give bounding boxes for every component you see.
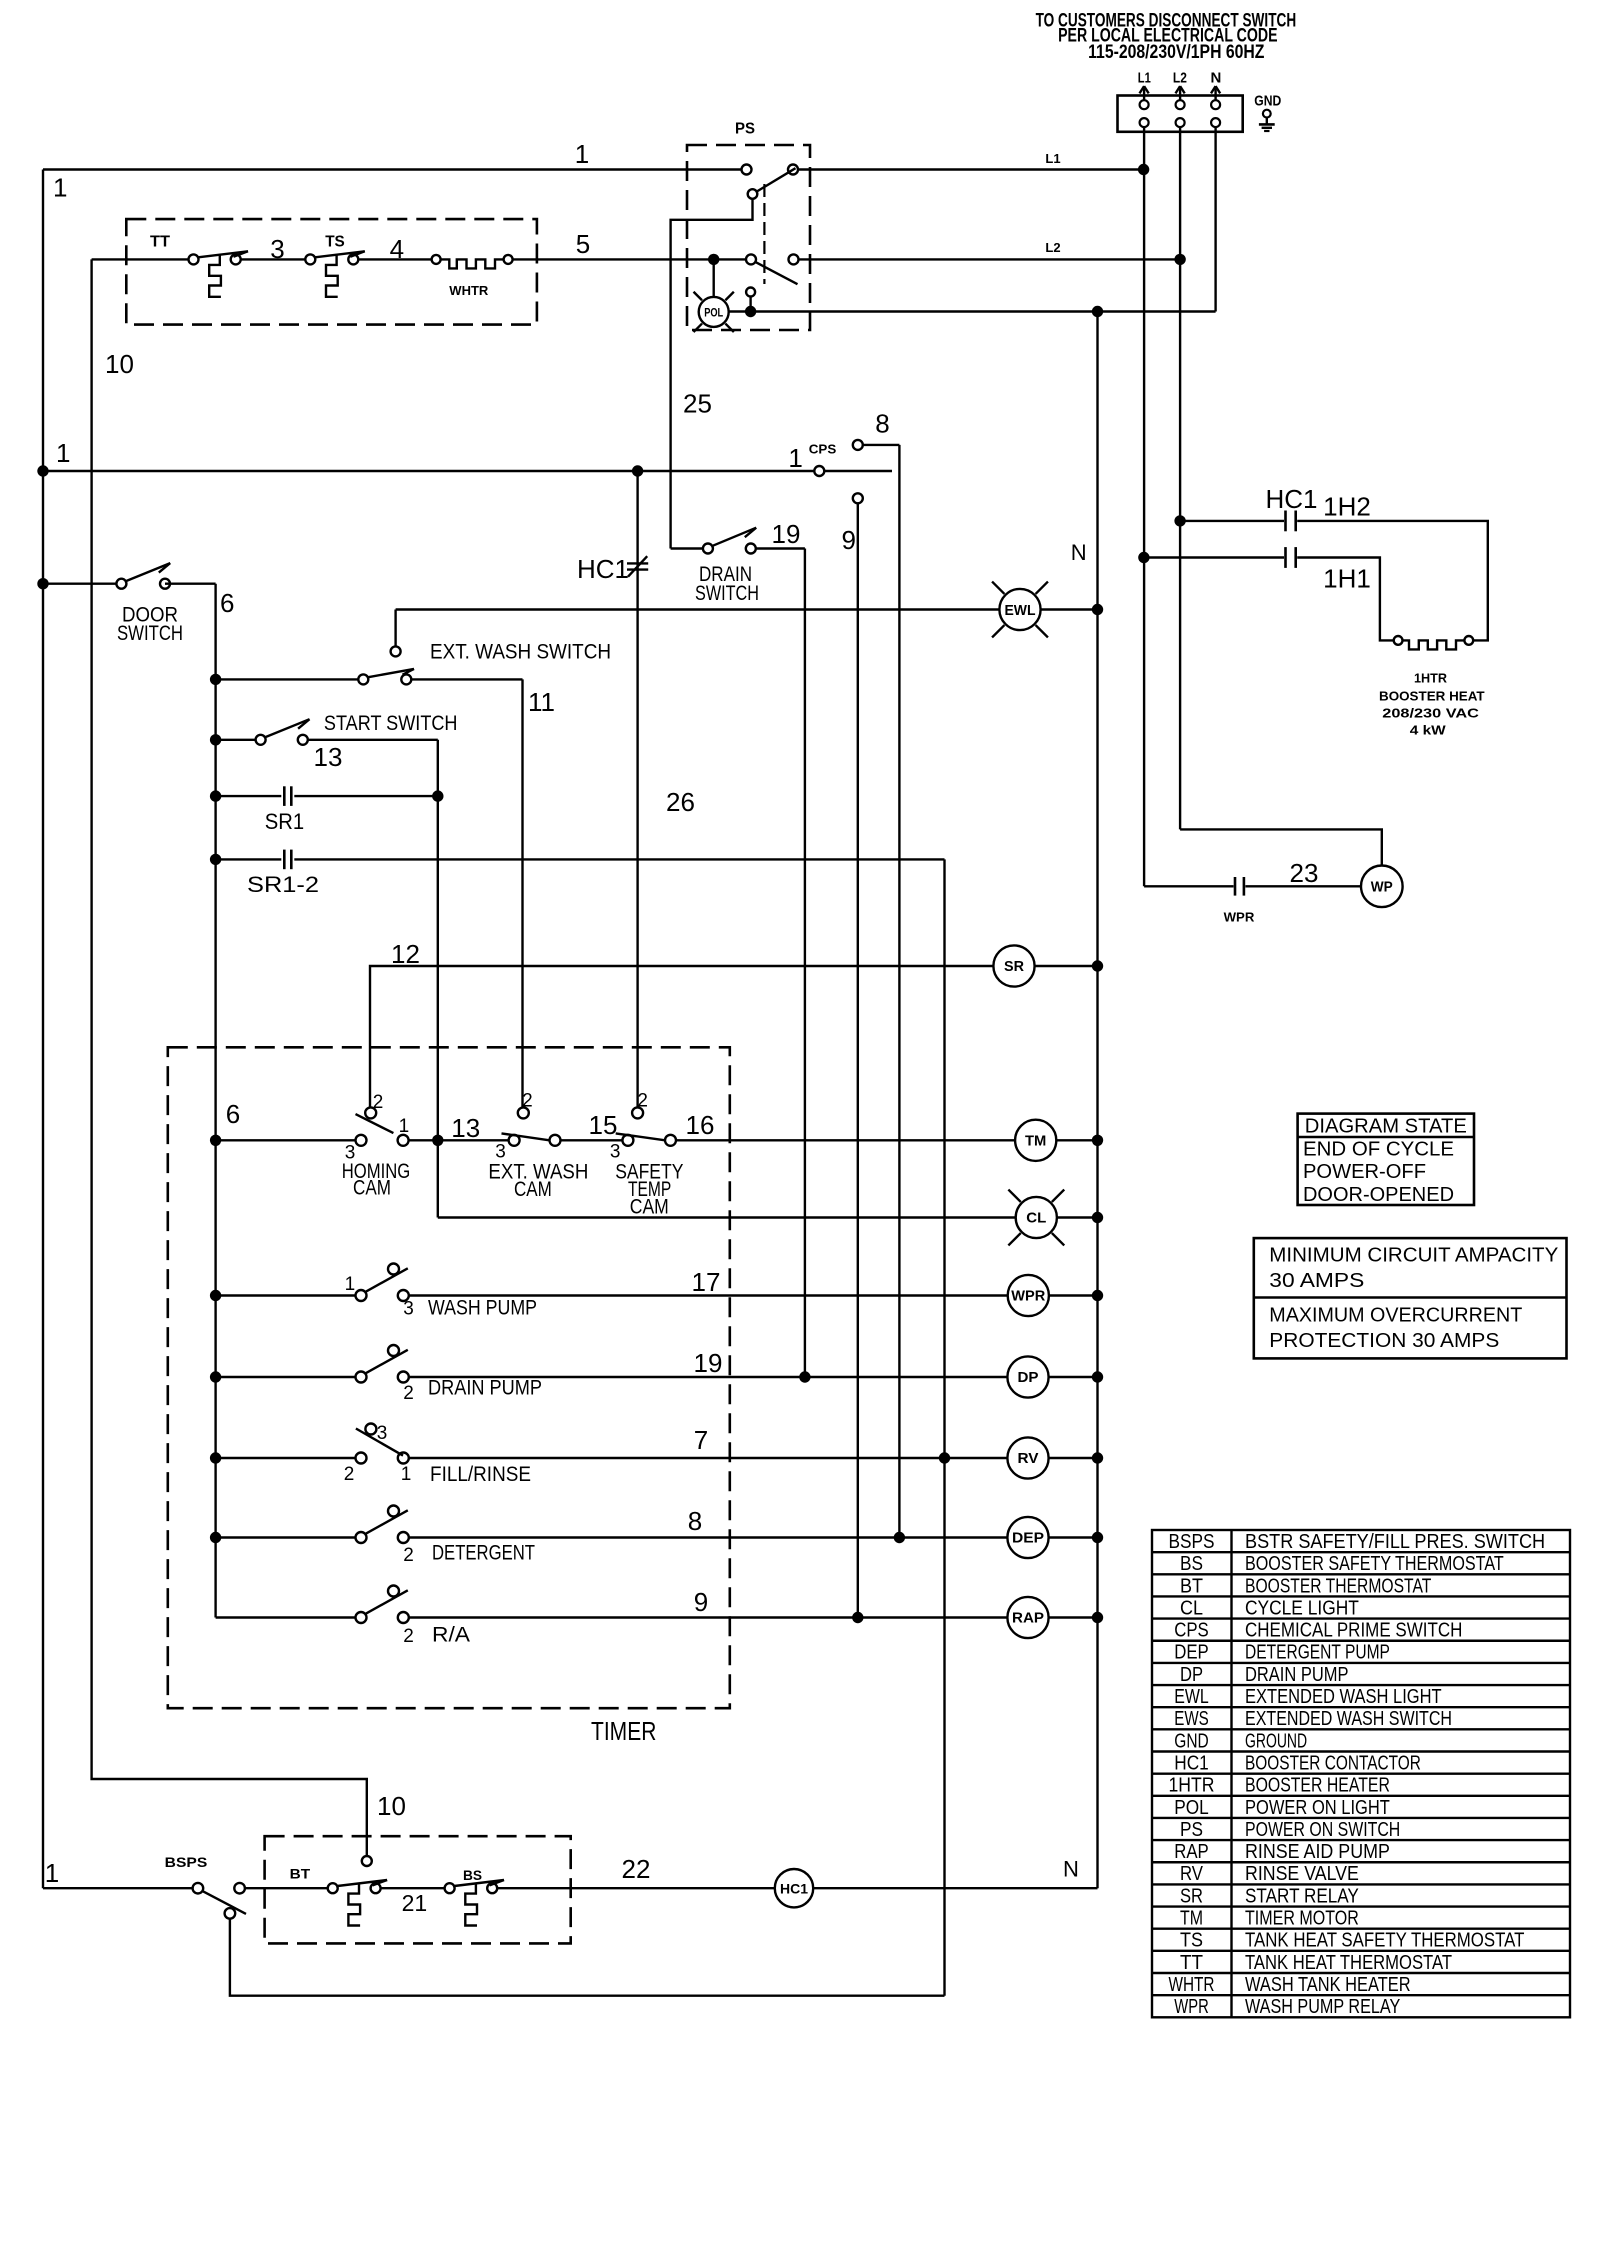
svg-text:N: N: [1063, 1856, 1079, 1881]
svg-text:2: 2: [373, 1092, 384, 1113]
svg-text:1: 1: [45, 1858, 59, 1888]
svg-text:19: 19: [772, 519, 801, 549]
svg-text:1HTR: 1HTR: [1169, 1775, 1215, 1797]
wire 6 vertical: [165, 584, 234, 1618]
svg-text:TT: TT: [150, 233, 170, 250]
N column from terminal down and POL/N wire: [729, 127, 1216, 312]
svg-text:L1: L1: [1138, 70, 1151, 87]
junction wire1 left: [37, 465, 48, 476]
junction RAP / N: [1092, 1612, 1103, 1623]
junction wire8 / DEP row: [894, 1532, 905, 1543]
svg-text:POWER ON LIGHT: POWER ON LIGHT: [1245, 1797, 1390, 1819]
svg-text:WP: WP: [1371, 879, 1393, 896]
junction ews row: [210, 674, 221, 685]
svg-text:WPR: WPR: [1011, 1288, 1045, 1305]
svg-text:26: 26: [666, 787, 695, 817]
diagram state box: [1298, 1114, 1474, 1207]
heater 1HTR booster: [1379, 636, 1485, 738]
pump coil DP: [1007, 1356, 1097, 1397]
svg-text:WHTR: WHTR: [449, 283, 489, 298]
svg-text:EXTENDED WASH LIGHT: EXTENDED WASH LIGHT: [1245, 1686, 1442, 1708]
terminal L1 arrow: [1138, 70, 1151, 101]
svg-text:EWL: EWL: [1174, 1686, 1209, 1708]
svg-text:6: 6: [220, 588, 234, 618]
svg-text:HC1: HC1: [1265, 484, 1317, 514]
svg-text:DRAIN PUMP: DRAIN PUMP: [1245, 1664, 1349, 1686]
svg-text:2: 2: [403, 1626, 414, 1647]
tank heat box (dashed): [126, 219, 537, 325]
junction wire19 / DP row: [799, 1371, 810, 1382]
switch BSPS: [43, 1854, 246, 1919]
svg-text:HC1: HC1: [780, 1880, 808, 1896]
svg-text:BSPS: BSPS: [165, 1854, 208, 1870]
svg-text:BOOSTER CONTACTOR: BOOSTER CONTACTOR: [1245, 1752, 1421, 1774]
wire 13 vertical from start switch: [308, 739, 438, 741]
svg-text:115-208/230V/1PH 60HZ: 115-208/230V/1PH 60HZ: [1088, 42, 1265, 63]
svg-text:R/A: R/A: [432, 1624, 470, 1647]
svg-text:SR: SR: [1180, 1885, 1203, 1907]
svg-text:WASH PUMP: WASH PUMP: [428, 1297, 537, 1320]
junction POL contact: [745, 306, 756, 317]
svg-text:10: 10: [105, 349, 134, 379]
junction L1 / 1H1: [1138, 552, 1149, 563]
svg-text:CHEMICAL PRIME SWITCH: CHEMICAL PRIME SWITCH: [1245, 1620, 1462, 1642]
svg-text:GND: GND: [1174, 1730, 1209, 1752]
L1 column vertical: [1143, 127, 1145, 886]
svg-text:5: 5: [576, 229, 590, 259]
svg-text:19: 19: [694, 1348, 723, 1378]
svg-text:N: N: [1210, 70, 1221, 87]
svg-text:DRAIN PUMP: DRAIN PUMP: [428, 1377, 542, 1400]
wire 16 to TM: [676, 1110, 1015, 1140]
svg-text:15: 15: [589, 1110, 618, 1140]
wire from SR1-2 down (right side): [943, 859, 945, 1995]
svg-text:1HTR: 1HTR: [1414, 670, 1448, 685]
wire 11 vertical: [411, 679, 555, 1108]
junction SR / N: [1092, 960, 1103, 971]
svg-text:RINSE AID PUMP: RINSE AID PUMP: [1245, 1841, 1390, 1863]
wire 7 to RV: [409, 1425, 1008, 1458]
wire 9 vertical: [841, 503, 857, 1617]
PS lower contact to POL wire: [746, 288, 755, 312]
svg-text:3: 3: [610, 1142, 621, 1163]
svg-text:DIAGRAM STATE: DIAGRAM STATE: [1305, 1115, 1467, 1137]
N main vertical bus: [1071, 312, 1098, 1889]
svg-text:CL: CL: [1180, 1597, 1203, 1619]
svg-text:1H2: 1H2: [1323, 491, 1371, 521]
wire 3 (TT to TS): [241, 234, 306, 264]
svg-text:17: 17: [692, 1267, 721, 1297]
ground GND: [1254, 92, 1281, 131]
svg-text:TT: TT: [1180, 1952, 1203, 1974]
svg-text:CPS: CPS: [809, 442, 837, 457]
junction start row: [210, 734, 221, 745]
relay coil WPR: [1008, 1275, 1098, 1316]
svg-text:HC1: HC1: [1174, 1752, 1209, 1774]
junction L2 / 1H2: [1174, 515, 1185, 526]
legend table: [1152, 1530, 1570, 2018]
wire 25 from PS pole1 pivot: [671, 199, 753, 549]
svg-text:3: 3: [377, 1423, 388, 1444]
svg-text:BT: BT: [1180, 1575, 1203, 1597]
svg-text:8: 8: [875, 408, 889, 438]
svg-text:EWL: EWL: [1005, 602, 1036, 619]
cam switch DETERGENT: [216, 1506, 536, 1567]
svg-text:RV: RV: [1018, 1450, 1039, 1467]
svg-text:12: 12: [391, 939, 420, 969]
contact SR1: [216, 786, 438, 834]
svg-text:30 AMPS: 30 AMPS: [1269, 1270, 1364, 1292]
lamp POL: [694, 259, 734, 332]
L2 column vertical: [1179, 127, 1181, 829]
junction SR1-2 left: [210, 854, 221, 865]
svg-text:BOOSTER HEATER: BOOSTER HEATER: [1245, 1775, 1390, 1797]
svg-text:TS: TS: [1180, 1930, 1203, 1952]
svg-text:3: 3: [403, 1299, 414, 1320]
svg-text:16: 16: [686, 1110, 715, 1140]
svg-text:PS: PS: [1180, 1819, 1203, 1841]
svg-text:WPR: WPR: [1174, 1996, 1209, 2018]
svg-text:2: 2: [522, 1091, 533, 1112]
junction WPR / N: [1092, 1290, 1103, 1301]
svg-text:DEP: DEP: [1174, 1642, 1209, 1664]
thermostat BT: [290, 1866, 387, 1926]
wire 19 to DP: [409, 1348, 1008, 1378]
cam switch SAFETY TEMP CAM: [561, 1091, 684, 1219]
svg-text:BS: BS: [1180, 1553, 1203, 1575]
svg-text:CL: CL: [1026, 1210, 1046, 1227]
svg-text:1: 1: [53, 172, 67, 202]
junction SR1 right: [432, 790, 443, 801]
svg-text:EXT. WASH SWITCH: EXT. WASH SWITCH: [430, 641, 611, 664]
svg-text:DEP: DEP: [1012, 1530, 1044, 1547]
pump coil DEP: [1007, 1517, 1097, 1558]
contact circle wire10 end: [362, 1856, 372, 1866]
svg-text:GND: GND: [1254, 92, 1281, 109]
svg-text:FILL/RINSE: FILL/RINSE: [430, 1463, 531, 1486]
wire L2 from PS pole2: [799, 240, 1181, 259]
svg-text:3: 3: [270, 234, 284, 264]
svg-text:10: 10: [377, 1791, 406, 1821]
svg-text:BS: BS: [463, 1867, 482, 1883]
contact SR1-2: [216, 850, 945, 897]
svg-text:WHTR: WHTR: [1169, 1974, 1215, 1996]
wire 22 to HC1 coil: [497, 1854, 775, 1888]
lamp EWL: [992, 582, 1097, 638]
wire CL row: [438, 1216, 1016, 1218]
wire BSPS lower contact loop: [230, 1919, 945, 1996]
timer box (dashed): [168, 1047, 730, 1746]
svg-text:6: 6: [226, 1099, 240, 1129]
svg-text:13: 13: [314, 742, 343, 772]
terminal block TB1: [1118, 96, 1243, 132]
svg-text:POWER ON SWITCH: POWER ON SWITCH: [1245, 1819, 1400, 1841]
junction TM / N: [1092, 1135, 1103, 1146]
svg-text:7: 7: [694, 1425, 708, 1455]
svg-text:EWS: EWS: [1174, 1708, 1209, 1730]
svg-text:WASH PUMP RELAY: WASH PUMP RELAY: [1245, 1996, 1400, 2018]
svg-text:4 kW: 4 kW: [1410, 723, 1447, 738]
svg-text:CPS: CPS: [1174, 1620, 1209, 1642]
svg-text:9: 9: [694, 1587, 708, 1617]
cam switch DRAIN PUMP: [216, 1345, 542, 1404]
svg-text:L1: L1: [1045, 151, 1060, 166]
switch EXT. WASH SWITCH: [216, 610, 611, 685]
junction wash row left: [210, 1290, 221, 1301]
junction RV / N: [1092, 1452, 1103, 1463]
junction PS pole2 / POL: [708, 254, 719, 265]
svg-text:BSTR SAFETY/FILL PRES. SWITCH: BSTR SAFETY/FILL PRES. SWITCH: [1245, 1531, 1545, 1553]
svg-text:25: 25: [683, 388, 712, 418]
svg-text:208/230 VAC: 208/230 VAC: [1382, 706, 1479, 721]
switch START SWITCH: [216, 712, 458, 772]
header note: disconnect switch text: [1036, 10, 1297, 63]
wire 8 vertical: [875, 408, 899, 1537]
thermostat TT: [150, 233, 248, 296]
contact HC1 NC (on wire 26): [577, 554, 648, 584]
contact WPR: [1144, 858, 1361, 924]
svg-text:RAP: RAP: [1174, 1841, 1209, 1863]
svg-text:BT: BT: [290, 1866, 311, 1882]
wire 10 vertical (left): [92, 259, 406, 1856]
lamp CL: [1008, 1190, 1097, 1246]
svg-text:L2: L2: [1045, 240, 1060, 255]
junction DEP / N: [1092, 1532, 1103, 1543]
svg-text:END OF CYCLE: END OF CYCLE: [1303, 1138, 1454, 1160]
wire L2 to WP top: [1180, 829, 1382, 866]
svg-text:SR: SR: [1004, 958, 1024, 975]
svg-text:WPR: WPR: [1224, 909, 1255, 924]
svg-text:DP: DP: [1018, 1369, 1039, 1386]
svg-text:CYCLE LIGHT: CYCLE LIGHT: [1245, 1597, 1359, 1619]
wire 21 (BT to BS): [381, 1888, 445, 1916]
valve coil RV: [1007, 1437, 1097, 1478]
svg-text:4: 4: [390, 234, 404, 264]
svg-text:HC1: HC1: [577, 554, 629, 584]
junction fill row left: [210, 1452, 221, 1463]
cam switch WASH PUMP: [216, 1264, 537, 1320]
wire 1 top horizontal: [43, 139, 742, 170]
svg-text:22: 22: [622, 1854, 651, 1884]
svg-text:CAM: CAM: [630, 1196, 669, 1219]
switch CPS: [788, 440, 899, 503]
svg-text:2: 2: [344, 1464, 355, 1485]
svg-text:DETERGENT PUMP: DETERGENT PUMP: [1245, 1642, 1390, 1664]
junction detergent row left: [210, 1532, 221, 1543]
svg-text:WASH TANK HEATER: WASH TANK HEATER: [1245, 1974, 1411, 1996]
wire 8 to DEP: [409, 1506, 1008, 1538]
wire 4 (TS to WHTR): [358, 234, 431, 264]
svg-text:PROTECTION 30 AMPS: PROTECTION 30 AMPS: [1269, 1330, 1499, 1352]
svg-text:POWER-OFF: POWER-OFF: [1303, 1161, 1426, 1183]
svg-text:1: 1: [399, 1116, 410, 1137]
wire HC1 to N: [813, 1856, 1097, 1888]
svg-text:2: 2: [403, 1545, 414, 1566]
svg-text:EXTENDED WASH SWITCH: EXTENDED WASH SWITCH: [1245, 1708, 1452, 1730]
svg-text:13: 13: [451, 1113, 480, 1143]
svg-text:TIMER MOTOR: TIMER MOTOR: [1245, 1908, 1359, 1930]
svg-text:L2: L2: [1173, 70, 1187, 87]
svg-text:23: 23: [1290, 858, 1319, 888]
svg-text:8: 8: [688, 1506, 702, 1536]
svg-text:1: 1: [575, 139, 589, 169]
cam switch R/A: [216, 1586, 470, 1648]
svg-text:TS: TS: [325, 233, 345, 250]
junction SR1 left: [210, 790, 221, 801]
cam switch HOMING CAM: [216, 1092, 411, 1200]
svg-text:1H1: 1H1: [1323, 563, 1371, 593]
wire L1 from PS to terminal: [798, 151, 1144, 170]
junction drain row left: [210, 1371, 221, 1382]
svg-text:1: 1: [345, 1274, 356, 1295]
pump coil RAP: [1007, 1597, 1097, 1638]
junction DP / N: [1092, 1371, 1103, 1382]
svg-text:11: 11: [528, 687, 555, 717]
svg-text:TIMER: TIMER: [591, 1716, 656, 1746]
wire 1 mid row: [43, 438, 814, 471]
wire 1 left vertical bus: [43, 170, 67, 1889]
PS pole 2 contacts: [746, 254, 799, 284]
svg-text:CAM: CAM: [353, 1177, 391, 1200]
svg-text:DETERGENT: DETERGENT: [432, 1542, 535, 1565]
thermostat TS: [305, 233, 365, 296]
svg-text:TM: TM: [1025, 1133, 1046, 1150]
svg-text:BOOSTER THERMOSTAT: BOOSTER THERMOSTAT: [1245, 1575, 1431, 1597]
junction door switch: [37, 578, 48, 589]
svg-text:TANK HEAT THERMOSTAT: TANK HEAT THERMOSTAT: [1245, 1952, 1452, 1974]
wire EWS to EWL: [396, 608, 1000, 610]
svg-text:CAM: CAM: [514, 1178, 552, 1201]
switch DOOR SWITCH: [43, 563, 183, 645]
svg-text:21: 21: [402, 1890, 428, 1916]
contact HC1 1H2: [1180, 484, 1488, 640]
junction line 26 top: [632, 465, 643, 476]
svg-text:TANK HEAT SAFETY THERMOSTAT: TANK HEAT SAFETY THERMOSTAT: [1245, 1930, 1524, 1952]
wire BSPS to BT: [245, 1887, 328, 1889]
timer motor TM: [1015, 1120, 1097, 1161]
booster box (dashed): [265, 1836, 571, 1943]
svg-text:RINSE VALVE: RINSE VALVE: [1245, 1863, 1359, 1885]
svg-text:SWITCH: SWITCH: [695, 582, 759, 605]
svg-text:PS: PS: [735, 121, 755, 138]
switch DRAIN SWITCH: [671, 528, 759, 605]
junction EWL / N: [1092, 604, 1103, 615]
svg-text:POL: POL: [704, 305, 723, 319]
wire 9 to RAP: [409, 1587, 1008, 1618]
svg-text:1: 1: [788, 443, 802, 473]
svg-text:BOOSTER HEAT: BOOSTER HEAT: [1379, 689, 1485, 704]
junction homing row left: [210, 1135, 221, 1146]
wire TT row lead-in: [92, 258, 189, 260]
svg-text:3: 3: [495, 1142, 506, 1163]
junction L2: [1174, 254, 1185, 265]
svg-text:GROUND: GROUND: [1245, 1730, 1307, 1752]
svg-text:1: 1: [56, 438, 70, 468]
svg-text:RAP: RAP: [1012, 1610, 1044, 1627]
relay coil SR: [993, 945, 1097, 986]
wire 17 to WPR: [409, 1267, 1008, 1297]
junction N column top: [1092, 306, 1103, 317]
wire 5 (WHTR to PS): [513, 229, 746, 259]
svg-text:1: 1: [401, 1464, 412, 1485]
junction homing out / wire13: [432, 1135, 443, 1146]
PS mechanical link (dashed): [763, 184, 765, 284]
junction wire7 / RV row: [939, 1452, 950, 1463]
svg-text:START RELAY: START RELAY: [1245, 1885, 1359, 1907]
svg-text:2: 2: [403, 1383, 414, 1404]
svg-text:RV: RV: [1180, 1863, 1204, 1885]
svg-text:START SWITCH: START SWITCH: [324, 712, 458, 735]
svg-text:DP: DP: [1180, 1664, 1203, 1686]
svg-text:SR1: SR1: [265, 809, 304, 834]
svg-text:POL: POL: [1174, 1797, 1209, 1819]
contactor coil HC1: [775, 1869, 813, 1907]
junction CL / N: [1092, 1212, 1103, 1223]
svg-text:N: N: [1071, 540, 1087, 565]
svg-text:9: 9: [841, 525, 855, 555]
cam switch FILL/RINSE: [216, 1423, 531, 1486]
wire 12: [370, 939, 993, 1108]
svg-text:DOOR-OPENED: DOOR-OPENED: [1303, 1184, 1454, 1206]
svg-text:SWITCH: SWITCH: [117, 622, 183, 645]
motor WP: [1361, 866, 1403, 908]
svg-text:TM: TM: [1180, 1908, 1203, 1930]
svg-text:MAXIMUM OVERCURRENT: MAXIMUM OVERCURRENT: [1269, 1304, 1522, 1326]
svg-text:2: 2: [637, 1091, 648, 1112]
svg-text:MINIMUM CIRCUIT AMPACITY: MINIMUM CIRCUIT AMPACITY: [1269, 1244, 1558, 1266]
svg-text:BSPS: BSPS: [1169, 1531, 1215, 1553]
junction L1 top: [1138, 164, 1149, 175]
terminal L2 arrow: [1173, 70, 1187, 101]
svg-text:SR1-2: SR1-2: [247, 872, 319, 897]
wire 19 from drain switch: [756, 519, 805, 1377]
wire 26 vertical: [638, 471, 695, 1108]
ampacity box: [1254, 1238, 1567, 1358]
svg-text:BOOSTER SAFETY THERMOSTAT: BOOSTER SAFETY THERMOSTAT: [1245, 1553, 1504, 1575]
junction wire9 / RAP row: [852, 1612, 863, 1623]
power switch PS box (dashed): [687, 121, 810, 331]
thermostat BS: [445, 1867, 504, 1925]
heater WHTR: [432, 255, 513, 298]
contact HC1 1H1: [1144, 547, 1394, 640]
PS pole 1 contacts: [742, 165, 799, 199]
terminal N arrow: [1210, 70, 1221, 101]
cam switch EXT. WASH CAM: [409, 1091, 589, 1202]
